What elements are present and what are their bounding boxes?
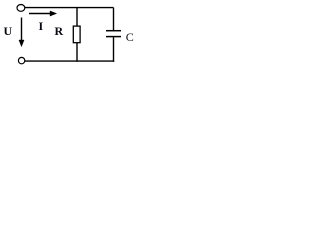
wire (capacitor branch, top lead): [113, 8, 115, 30]
wire (resistor branch, bottom lead): [76, 43, 78, 62]
wire (bottom, from bottom terminal to capacitor branch): [25, 60, 114, 62]
capacitor C (bottom plate): [106, 36, 121, 38]
wire (top, from top terminal to capacitor branch): [25, 7, 114, 9]
resistor R (IEC box): [73, 26, 80, 43]
voltage arrow U (downward, between terminals): [21, 18, 23, 42]
capacitor C (top plate): [106, 30, 121, 32]
terminal (bottom-left, open circle): [18, 57, 24, 63]
wire (capacitor branch, bottom lead): [113, 37, 115, 62]
svg-text:U: U: [4, 24, 13, 38]
svg-text:C: C: [126, 30, 134, 44]
wire (resistor branch, top lead): [76, 8, 78, 26]
terminal (top-left, open circle): [17, 5, 25, 12]
svg-text:R: R: [55, 24, 64, 38]
current arrow I: [29, 13, 51, 15]
svg-text:I: I: [39, 19, 44, 33]
